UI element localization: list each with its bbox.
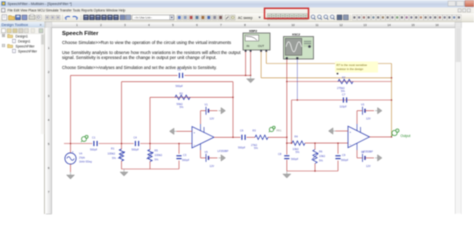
wire W2 riser <box>121 82 123 144</box>
wire bottom rail stage1 <box>122 168 180 170</box>
junction feedback legs <box>232 137 234 139</box>
tree <box>2 34 38 53</box>
svg-text:AC sweep: AC sweep <box>238 16 253 20</box>
svg-text:560pF: 560pF <box>176 84 184 88</box>
wire R5 bottom stub <box>149 162 151 170</box>
svg-text:2Vpk: 2Vpk <box>79 156 86 160</box>
wire U2 output <box>370 136 392 138</box>
svg-text:SpeechFilter: SpeechFilter <box>18 50 38 54</box>
capacitor C5 <box>176 68 184 88</box>
wire C3 top stub <box>178 144 180 154</box>
battery V6 <box>357 150 374 168</box>
battery V1 <box>201 103 218 121</box>
panel scrollbar <box>41 34 44 134</box>
svg-text:C5: C5 <box>178 68 182 72</box>
svg-text:Design Toolbox: Design Toolbox <box>2 22 29 27</box>
wire stage2 chain start <box>287 142 292 144</box>
junction C3 node <box>178 143 180 145</box>
variable resistor R5 <box>147 149 163 162</box>
svg-text:11: 11 <box>315 23 318 27</box>
wire to R3 <box>247 136 256 138</box>
svg-text:R4: R4 <box>295 135 299 139</box>
svg-text:560pF: 560pF <box>238 145 246 149</box>
svg-text:12V: 12V <box>366 117 371 121</box>
resistor R2 <box>175 91 190 109</box>
capacitor C4 <box>132 136 140 152</box>
wire bode OUT- stub (orange) <box>265 52 267 64</box>
svg-text:Output: Output <box>401 134 411 138</box>
wire C8 bottom stub <box>286 160 288 171</box>
svg-text:14: 14 <box>387 23 391 27</box>
svg-text:275kΩ: 275kΩ <box>337 86 345 90</box>
svg-text:100kΩ: 100kΩ <box>108 152 116 156</box>
wire bottom rail stage2 <box>287 170 338 172</box>
capacitor C8 <box>278 152 299 161</box>
wire U1 VCC riser <box>200 111 202 124</box>
svg-text:XBP2: XBP2 <box>249 29 257 33</box>
wire R1 stub <box>121 144 123 150</box>
svg-text:V1: V1 <box>205 103 209 107</box>
ground V5 <box>219 155 226 161</box>
svg-text:+: + <box>194 130 196 134</box>
svg-text:13: 13 <box>363 23 367 27</box>
wire output net top rail (orange) <box>266 63 391 65</box>
wire R5 stub <box>149 144 151 150</box>
svg-text:signal. Sensitivity is express: signal. Sensitivity is expressed as the … <box>62 55 217 60</box>
svg-text:Choose Simulate>>Run to view t: Choose Simulate>>Run to view the operati… <box>62 40 232 45</box>
wire U2 VEE drop <box>356 150 358 158</box>
svg-text:560pF: 560pF <box>90 148 98 152</box>
wire C3 bottom stub <box>178 161 180 169</box>
wire stage2 inner feedback <box>292 99 392 101</box>
left panel <box>0 22 45 218</box>
svg-text:SpeechFilter: SpeechFilter <box>16 45 36 49</box>
svg-text:16: 16 <box>435 23 439 27</box>
title bar <box>0 0 474 8</box>
svg-text:V3: V3 <box>361 103 365 107</box>
wire stage2 inner left leg <box>291 100 293 143</box>
svg-text:1kHz 0Deg: 1kHz 0Deg <box>79 160 92 164</box>
svg-text:C9: C9 <box>342 153 346 157</box>
wire R3 to node <box>268 136 287 138</box>
svg-text:12V: 12V <box>210 164 215 168</box>
probe input <box>81 135 88 142</box>
junction chain tap <box>286 142 288 144</box>
ground U2 + input <box>329 128 336 134</box>
bode plotter XBP2 <box>243 29 270 52</box>
wire R6 bottom stub <box>314 164 316 172</box>
junction scope A / stage2 feedback corner <box>286 81 288 83</box>
wire U2 VCC riser <box>356 111 358 124</box>
wire input line mid <box>99 143 134 145</box>
capacitor C1 <box>90 136 98 152</box>
wire chain to U2 <box>305 142 348 144</box>
svg-text:×: × <box>40 23 42 27</box>
resistor R7 <box>337 75 353 93</box>
junction R6 tap <box>314 142 316 144</box>
svg-text:+: + <box>350 130 352 134</box>
wire W3 riser <box>149 97 151 143</box>
svg-text:560pF: 560pF <box>182 158 190 162</box>
svg-text:R3: R3 <box>253 129 257 133</box>
junction orange rails <box>391 77 393 79</box>
right scrollbar <box>455 22 462 28</box>
svg-text:560pF: 560pF <box>132 148 140 152</box>
AC source V4 <box>65 144 92 173</box>
svg-text:V4: V4 <box>79 152 83 156</box>
svg-text:R5: R5 <box>155 149 159 153</box>
svg-text:27kΩ: 27kΩ <box>251 143 257 147</box>
wire C9 top stub <box>337 143 339 154</box>
wire feedback W3 (R2 rail) <box>150 96 233 98</box>
junction inner leg tap <box>291 142 293 144</box>
svg-text:Speech Filter: Speech Filter <box>62 31 99 37</box>
svg-text:R2: R2 <box>180 91 184 95</box>
wire input line right <box>140 143 192 145</box>
variable resistor R1 <box>108 147 125 162</box>
wire scope channel B (blue) <box>296 59 298 100</box>
op-amp U1 LF353BP <box>192 124 229 153</box>
wire top rail left of C5 <box>71 74 178 76</box>
menu bar <box>0 8 474 14</box>
wire U1 VEE drop <box>200 150 202 158</box>
ground stage2 rail <box>283 171 291 178</box>
wire bode IN+ <box>245 52 247 76</box>
battery V5 <box>201 150 218 168</box>
ground source <box>67 172 75 179</box>
toolbar <box>0 13 474 22</box>
svg-text:LF353BP: LF353BP <box>218 149 229 153</box>
capacitor C9 <box>335 153 348 162</box>
svg-text:−: − <box>350 143 352 147</box>
svg-text:IN: IN <box>247 44 250 48</box>
junction bode IN+ / top rail <box>245 75 247 77</box>
svg-text:XSC2: XSC2 <box>292 33 300 37</box>
svg-text:C3: C3 <box>183 153 187 157</box>
svg-text:110pF: 110pF <box>340 105 348 109</box>
svg-text:100kΩ: 100kΩ <box>155 153 163 157</box>
wire feedback W2 <box>122 81 234 83</box>
junction R1 node <box>121 143 123 145</box>
op-amp U2 LF353BP <box>348 124 373 153</box>
svg-text:C6: C6 <box>240 129 244 133</box>
svg-text:−: − <box>194 143 196 147</box>
svg-text:R1: R1 <box>111 147 115 151</box>
svg-text:Use Sensitivity analysis to ob: Use Sensitivity analysis to observe how … <box>62 50 241 55</box>
svg-text:C7: C7 <box>342 92 346 96</box>
wire output net mid rail (orange) <box>261 77 391 79</box>
probe PR1 <box>269 126 282 132</box>
battery V3 <box>357 103 374 121</box>
svg-text:resistor in the design: resistor in the design <box>337 67 364 71</box>
svg-text:SpeechFilter - Multisim - [Spe: SpeechFilter - Multisim - [SpeechFilter … <box>8 2 72 6</box>
ground bode IN- <box>247 76 255 83</box>
svg-text:R6: R6 <box>319 150 323 154</box>
junction C9 tap <box>337 142 339 144</box>
svg-text:Choose Simulate>>Analyses and: Choose Simulate>>Analyses and Simulation… <box>62 65 217 70</box>
comment note R7 <box>335 62 378 75</box>
red annotation rectangle <box>265 8 309 18</box>
capacitor C3 <box>176 153 189 162</box>
svg-text:560pF: 560pF <box>291 157 299 161</box>
wire bode OUT+ (orange) <box>260 52 262 78</box>
wire top rail right of C5 <box>185 74 251 76</box>
canvas description text <box>62 31 241 70</box>
wire U1 output <box>214 136 241 138</box>
capacitor C6 <box>238 129 246 150</box>
variable resistor R6 <box>312 150 326 164</box>
svg-text:C8: C8 <box>278 152 282 156</box>
svg-text:C1: C1 <box>92 136 96 140</box>
panel mini toolbar <box>0 27 45 33</box>
wire R6 stub <box>314 143 316 149</box>
svg-text:V6: V6 <box>361 150 365 154</box>
svg-text:56kΩ: 56kΩ <box>177 102 183 106</box>
wire left riser (input node to top rail) <box>70 75 72 143</box>
svg-text:12: 12 <box>339 23 343 27</box>
svg-text:PR1: PR1 <box>277 130 282 133</box>
junction R6 / rail <box>314 170 316 172</box>
wire stage2 outer feedback <box>287 81 392 83</box>
svg-text:--In Use List--: --In Use List-- <box>134 16 152 20</box>
svg-text:C4: C4 <box>134 136 138 140</box>
svg-text:10kΩ: 10kΩ <box>319 154 325 158</box>
junction bode IN- / ground tap <box>250 75 252 77</box>
svg-text:12V: 12V <box>366 164 371 168</box>
junction R5 node <box>149 143 151 145</box>
wire output net right leg (orange) <box>391 64 393 137</box>
svg-text:V5: V5 <box>205 150 209 154</box>
wire U1 noninverting input <box>177 130 193 132</box>
rulers <box>46 22 53 28</box>
capacitor C7 <box>340 92 348 108</box>
wire input line left <box>64 143 92 145</box>
ground stage1 rail <box>120 169 128 176</box>
wire scope channel A <box>286 59 288 81</box>
junction output node <box>391 136 393 138</box>
svg-text:Design1: Design1 <box>16 35 29 39</box>
wire feedback down-leg to output node <box>232 82 234 138</box>
ground U1 + input <box>170 128 177 134</box>
wire R1 bottom stub <box>121 161 123 169</box>
junction source tap <box>70 143 72 145</box>
junction inner feedback / output leg <box>391 99 393 101</box>
ground V1 <box>219 108 226 114</box>
ground V6 <box>375 155 382 161</box>
svg-text:10: 10 <box>291 23 295 27</box>
svg-text:10kΩ: 10kΩ <box>293 147 299 151</box>
svg-text:15: 15 <box>411 23 415 27</box>
resistor R4 <box>292 135 305 155</box>
junction output line / stage2 vertical <box>286 137 288 139</box>
wire bode IN- <box>250 52 252 76</box>
svg-text:File Edit View Place MCU: File Edit View Place MCU Simulate Transf… <box>8 9 126 13</box>
junction W3 / down-leg <box>232 97 234 99</box>
svg-text:Design1: Design1 <box>18 40 31 44</box>
svg-text:OUT: OUT <box>258 44 264 48</box>
svg-text:560pF: 560pF <box>341 158 349 162</box>
resistor R3 <box>251 129 268 151</box>
wire C9 bottom stub <box>337 161 339 171</box>
junction scope B / stage2 inner feedback <box>297 99 299 101</box>
wire stage2 main vertical <box>286 82 288 155</box>
svg-text:12V: 12V <box>210 117 215 121</box>
ground V3 <box>375 108 382 114</box>
oscilloscope XSC2 <box>284 33 314 60</box>
svg-text:R7: R7 <box>342 75 346 79</box>
probe Output <box>391 129 410 138</box>
wire U2 noninverting input <box>336 130 349 132</box>
